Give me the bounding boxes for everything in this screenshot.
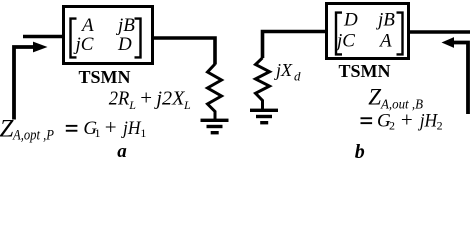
resistor jXd zigzag	[256, 58, 270, 110]
wire: output stub from TSMN box (b)	[408, 30, 470, 34]
wire: input stub into TSMN box (a)	[23, 35, 64, 39]
matrix left bracket [ (b)	[336, 13, 342, 55]
svg-text:A: A	[80, 15, 94, 36]
wire: box output to load resistor (a)	[152, 38, 215, 65]
svg-text:+: +	[401, 108, 413, 132]
svg-text:TSMN: TSMN	[339, 61, 391, 81]
svg-text:2R: 2R	[109, 88, 130, 110]
node label = G2 + jH2	[361, 117, 373, 119]
TSMN two-port box (a)	[64, 7, 153, 64]
svg-text:b: b	[355, 141, 365, 158]
matrix right bracket ] (a)	[135, 19, 141, 58]
wire: box to shunt element jXd	[263, 32, 328, 59]
resistor 2RL+j2XL zigzag	[208, 64, 222, 120]
svg-text:jC: jC	[334, 31, 355, 52]
matrix left bracket [ (a)	[71, 19, 77, 58]
svg-text:jB: jB	[115, 15, 135, 36]
TSMN two-port box (b)	[327, 4, 409, 59]
ground (b)	[250, 109, 278, 112]
svg-text:+: +	[105, 115, 117, 139]
svg-text:jB: jB	[375, 10, 395, 31]
svg-text:D: D	[343, 10, 358, 31]
svg-text:2: 2	[437, 119, 443, 133]
svg-text:2: 2	[389, 119, 395, 133]
svg-text:A: A	[378, 31, 392, 52]
svg-text:L: L	[128, 98, 136, 112]
svg-text:+: +	[140, 86, 152, 110]
ground (a)	[201, 119, 229, 122]
svg-text:jX: jX	[274, 60, 293, 80]
svg-text:a: a	[117, 141, 127, 158]
svg-text:TSMN: TSMN	[79, 67, 131, 87]
svg-text:jH: jH	[417, 111, 438, 132]
matrix right bracket ] (b)	[397, 13, 403, 55]
arrow: impedance looking-in arrow Z_A,opt,P	[14, 47, 34, 120]
svg-text:D: D	[117, 34, 132, 55]
svg-text:1: 1	[95, 126, 101, 140]
svg-text:Z: Z	[368, 84, 381, 109]
svg-text:A,opt ,P: A,opt ,P	[12, 128, 54, 144]
svg-text:jH: jH	[120, 118, 141, 139]
svg-text:d: d	[294, 69, 301, 84]
svg-text:j2X: j2X	[153, 88, 185, 110]
svg-text:L: L	[183, 98, 191, 112]
arrow: impedance looking-in arrow Z_A,out,B	[453, 43, 468, 115]
svg-text:jC: jC	[73, 34, 94, 55]
svg-text:1: 1	[140, 126, 146, 140]
